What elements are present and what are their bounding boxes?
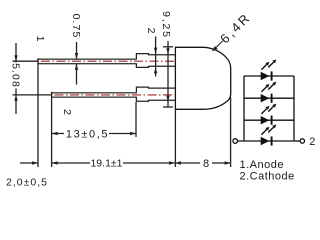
svg-text:1.Anode: 1.Anode xyxy=(240,159,284,171)
svg-text:2: 2 xyxy=(145,28,157,34)
svg-text:0.75: 0.75 xyxy=(70,14,82,39)
svg-text:2.Cathode: 2.Cathode xyxy=(240,171,295,183)
svg-text:8: 8 xyxy=(203,158,209,170)
svg-text:19.1±1: 19.1±1 xyxy=(90,158,122,170)
svg-text:9,25: 9,25 xyxy=(160,11,172,39)
svg-text:2,0±0,5: 2,0±0,5 xyxy=(6,176,48,188)
svg-text:2: 2 xyxy=(61,109,73,115)
svg-text:13±0,5: 13±0,5 xyxy=(66,129,109,141)
svg-text:1: 1 xyxy=(34,36,46,42)
svg-text:2: 2 xyxy=(309,136,315,148)
svg-text:5.08: 5.08 xyxy=(10,63,22,88)
